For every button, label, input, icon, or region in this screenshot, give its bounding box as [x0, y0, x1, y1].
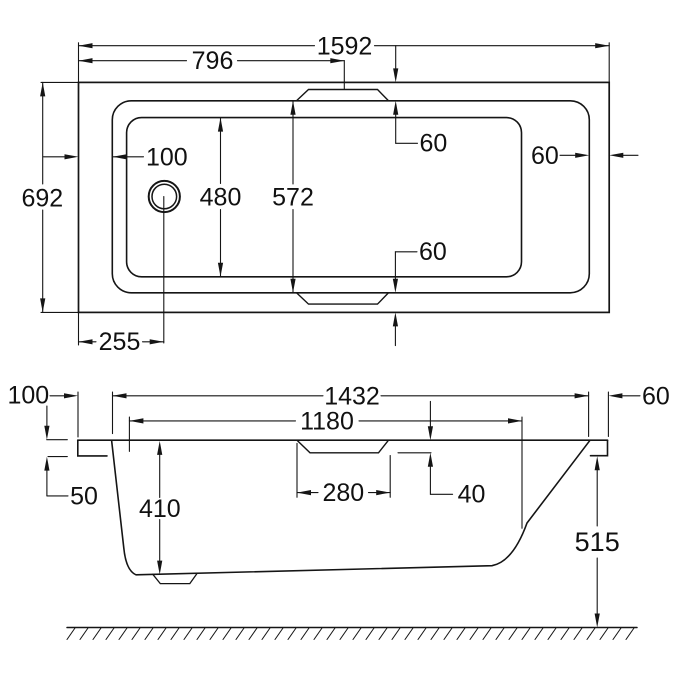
dim 796 line, arrows, extension	[79, 58, 345, 89]
svg-text:60: 60	[531, 142, 559, 170]
plan outer rectangle (bath deck)	[79, 82, 610, 312]
drain outer circle	[149, 181, 180, 212]
dim 280 extensions, line, arrows	[297, 443, 390, 497]
dim 100 plan: right arrow and leader to text	[113, 154, 144, 159]
svg-text:60: 60	[642, 382, 670, 410]
drain inner circle	[152, 184, 177, 209]
dim 1432 line and arrows	[113, 393, 589, 398]
dim 50: lower arrow, leader and extension	[44, 457, 68, 496]
plan inner rim rounded rect	[127, 118, 522, 277]
dim 255: extension, line, arrows	[79, 312, 164, 345]
dim 410 line and arrows	[157, 441, 162, 575]
dim 100 side: leader and right arrow	[50, 393, 127, 398]
drain leader line down to 255 dim	[163, 197, 165, 344]
side view tub profile: left slope, bottom, right back wall	[112, 440, 590, 574]
dim 60 right plan: leaders and arrows	[560, 153, 638, 158]
dim 515 line and arrows	[595, 456, 600, 627]
svg-text:796: 796	[192, 47, 234, 75]
ground hatching	[67, 628, 634, 640]
dim 572 line and arrows	[290, 101, 295, 293]
svg-text:572: 572	[272, 184, 314, 212]
dim 60 top: arrows and leader	[393, 46, 417, 144]
dim 40: recess bottom extension, arrows, leader	[398, 401, 453, 494]
side view foot trapezoid under bottom	[153, 573, 197, 583]
dim 692 line and arrows	[40, 82, 45, 312]
svg-text:692: 692	[21, 184, 63, 212]
svg-text:255: 255	[99, 328, 141, 356]
svg-text:100: 100	[8, 382, 50, 410]
dim 1432 right extension line	[588, 392, 590, 437]
ground line	[67, 627, 637, 629]
svg-text:480: 480	[200, 183, 242, 211]
dim 50: upper down-arrow from 100 text	[44, 406, 67, 440]
dim 480 line and arrows	[218, 118, 223, 277]
dim 60 bottom: arrows and leader	[393, 252, 417, 346]
dim 692 extension lines	[41, 82, 79, 312]
svg-text:1180: 1180	[300, 408, 354, 436]
plan outer rim rounded rect	[112, 101, 589, 293]
dim 100 plan: left arrow from 692 line	[43, 154, 78, 159]
side view headrest recess	[297, 440, 389, 453]
svg-text:1592: 1592	[317, 32, 373, 60]
svg-text:50: 50	[70, 483, 98, 511]
dim 1592 line and arrows	[79, 43, 610, 48]
svg-text:60: 60	[419, 238, 447, 266]
svg-text:60: 60	[420, 130, 448, 158]
svg-text:100: 100	[146, 143, 188, 171]
svg-text:40: 40	[458, 481, 486, 509]
plan top headrest trapezoid	[297, 90, 389, 101]
side view left edge and ledge	[78, 440, 107, 456]
dim 60 side right: arrow and leader	[608, 392, 640, 437]
svg-text:410: 410	[139, 495, 181, 523]
dim 100 side: extension lines	[78, 392, 113, 437]
dim 1180 line and arrows	[129, 417, 522, 528]
side view deck top line	[78, 439, 608, 441]
svg-text:1432: 1432	[324, 382, 380, 410]
dim 1592 extension lines	[79, 43, 610, 83]
side view right edge and lip	[591, 440, 608, 456]
plan bottom headrest trapezoid	[297, 293, 389, 304]
svg-text:515: 515	[575, 527, 620, 557]
svg-text:280: 280	[322, 479, 364, 507]
